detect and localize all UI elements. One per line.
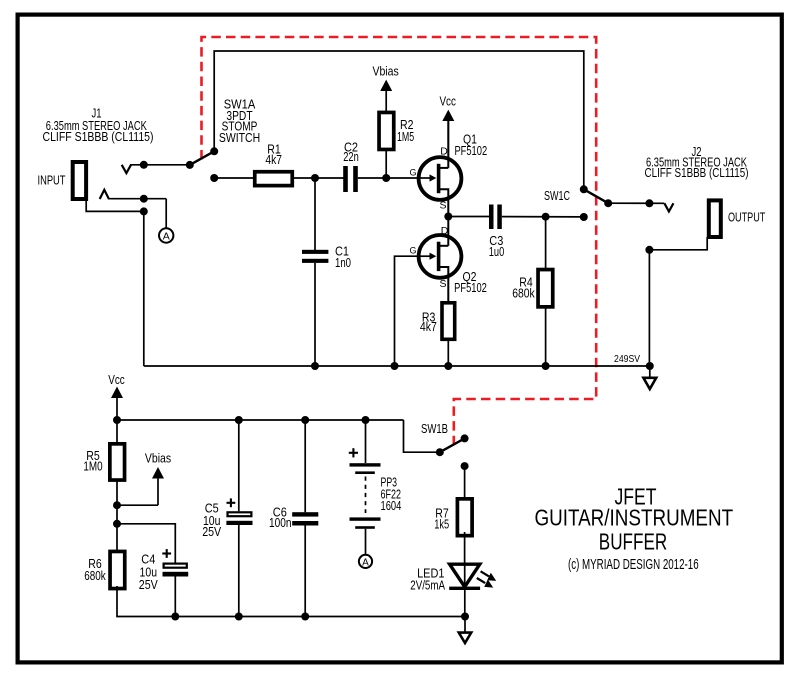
svg-text:CLIFF S1BBB (CL1115): CLIFF S1BBB (CL1115) (645, 165, 749, 180)
svg-text:(c) MYRIAD DESIGN 2012-16: (c) MYRIAD DESIGN 2012-16 (568, 557, 699, 573)
svg-text:SW1C: SW1C (544, 188, 570, 203)
svg-text:100n: 100n (269, 515, 292, 530)
svg-text:25V: 25V (139, 577, 158, 592)
svg-text:A: A (163, 230, 170, 242)
svg-text:Vbias: Vbias (372, 63, 399, 78)
svg-text:1604: 1604 (381, 498, 402, 513)
svg-text:1M5: 1M5 (397, 129, 414, 144)
svg-text:249SV: 249SV (614, 354, 640, 365)
svg-text:Vbias: Vbias (145, 451, 172, 466)
svg-text:OUTPUT: OUTPUT (728, 210, 765, 225)
svg-text:G: G (409, 246, 416, 256)
svg-text:4k7: 4k7 (265, 152, 282, 167)
svg-text:PF5102: PF5102 (454, 280, 487, 295)
svg-text:GUITAR/INSTRUMENT: GUITAR/INSTRUMENT (534, 505, 733, 531)
svg-text:BUFFER: BUFFER (599, 529, 667, 555)
svg-text:S: S (439, 199, 446, 211)
svg-text:Vcc: Vcc (108, 372, 125, 387)
svg-text:A: A (362, 558, 369, 569)
svg-text:1u0: 1u0 (489, 244, 505, 259)
svg-text:PF5102: PF5102 (454, 143, 487, 158)
svg-text:INPUT: INPUT (38, 173, 66, 188)
svg-text:680k: 680k (84, 568, 106, 583)
svg-text:22n: 22n (343, 149, 359, 164)
svg-text:2V/5mA: 2V/5mA (410, 577, 445, 592)
svg-text:SWITCH: SWITCH (219, 130, 260, 145)
svg-text:4k7: 4k7 (420, 319, 437, 334)
svg-text:G: G (409, 167, 416, 177)
svg-text:CLIFF S1BBB (CL1115): CLIFF S1BBB (CL1115) (43, 129, 154, 144)
svg-text:25V: 25V (202, 524, 221, 539)
svg-text:1M0: 1M0 (83, 459, 102, 474)
svg-text:1k5: 1k5 (434, 517, 449, 532)
svg-text:D: D (441, 225, 449, 237)
svg-text:680k: 680k (512, 285, 535, 300)
svg-text:D: D (440, 145, 448, 157)
svg-text:S: S (439, 278, 446, 290)
svg-text:1n0: 1n0 (335, 255, 351, 270)
svg-text:Vcc: Vcc (439, 93, 456, 108)
svg-text:SW1B: SW1B (421, 421, 448, 436)
